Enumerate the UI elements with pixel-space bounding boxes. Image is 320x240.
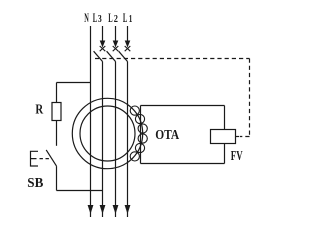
wire L1 top (127, 26, 129, 42)
wire L3 top (102, 26, 104, 42)
svg-text:N: N (84, 11, 89, 25)
OTA secondary winding loop 4 (138, 134, 147, 143)
wire N vertical full (90, 26, 92, 217)
arrowhead L1 top (125, 41, 131, 48)
svg-text:FV: FV (231, 148, 243, 163)
svg-text:L: L (93, 11, 97, 25)
breaker contact cross L1 (125, 46, 131, 51)
wire L2 lower vertical (115, 62, 117, 218)
wire L2 top (115, 26, 117, 42)
OTA secondary winding loop 3 (138, 124, 147, 133)
wire L1 lower vertical (127, 62, 129, 218)
secondary loop top lead (141, 105, 225, 107)
arrowhead L2 top (113, 41, 119, 48)
arrowhead L2 bottom (113, 205, 119, 214)
arrowhead L3 top (100, 41, 106, 48)
secondary loop right upper (224, 106, 226, 130)
svg-text:3: 3 (98, 14, 102, 25)
arrowhead L3 bottom (100, 205, 106, 214)
resistor R body (52, 103, 61, 121)
wire L3 lower vertical (102, 62, 104, 218)
pushbutton SB actuator E (31, 151, 39, 166)
arrowhead N bottom (88, 205, 94, 214)
svg-text:R: R (35, 101, 43, 116)
trip linkage dashed stub to FV (240, 136, 250, 138)
wire R to SB (56, 121, 58, 146)
trip coil FV rectangle (211, 130, 236, 144)
svg-text:2: 2 (114, 14, 118, 25)
breaker blade L3 (94, 51, 103, 61)
secondary loop bottom lead (141, 163, 225, 165)
pushbutton SB lower wire (56, 166, 58, 190)
pushbutton SB blade (46, 150, 56, 166)
OTA secondary winding loop 5 (135, 143, 144, 152)
breaker blade L2 (107, 51, 116, 61)
svg-text:L: L (123, 11, 127, 25)
svg-text:L: L (108, 11, 112, 25)
trip linkage dashed vertical (249, 59, 251, 137)
arrowhead L1 bottom (125, 205, 131, 214)
svg-text:1: 1 (129, 14, 133, 25)
current transformer OTA outer ring (72, 98, 142, 168)
svg-text:SB: SB (27, 175, 43, 190)
test branch bottom wire to L3 (57, 190, 103, 192)
secondary loop left edge (140, 106, 142, 164)
trip linkage dashed horizontal (95, 58, 250, 60)
OTA secondary winding loop 6 (130, 152, 139, 161)
secondary loop right lower (224, 144, 226, 164)
pushbutton SB link dashes (40, 158, 50, 160)
current transformer OTA inner ring (80, 106, 135, 161)
OTA secondary winding loop 1 (130, 106, 139, 115)
breaker contact cross L3 (100, 46, 106, 51)
FV solid stub (236, 136, 240, 138)
OTA secondary winding loop 2 (135, 114, 144, 123)
svg-text:OTA: OTA (155, 128, 180, 143)
breaker blade L1 (119, 51, 128, 61)
test branch tap from N (57, 82, 91, 84)
breaker contact cross L2 (113, 46, 119, 51)
test branch wire down to R (56, 83, 58, 103)
